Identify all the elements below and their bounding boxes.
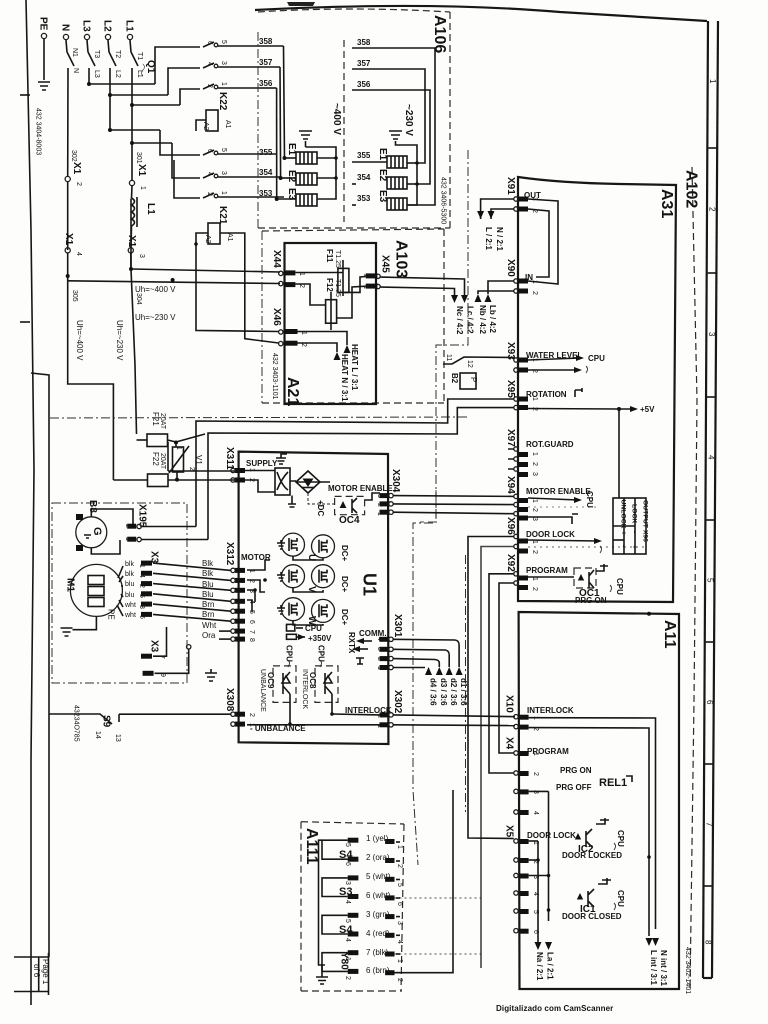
svg-text:X1: X1 <box>71 162 82 175</box>
svg-text:blu: blu <box>125 592 134 599</box>
svg-text:Brn: Brn <box>202 600 214 609</box>
svg-text:2: 2 <box>532 772 539 776</box>
svg-text:OC4: OC4 <box>339 515 360 526</box>
svg-text:5: 5 <box>344 919 351 923</box>
svg-text:20AT: 20AT <box>159 413 166 430</box>
svg-text:432 3402-1401: 432 3402-1401 <box>684 947 691 994</box>
svg-text:20AT: 20AT <box>159 453 166 470</box>
svg-text:2: 2 <box>708 207 717 212</box>
svg-text:1: 1 <box>138 564 145 568</box>
svg-text:1: 1 <box>220 191 227 195</box>
svg-text:X308: X308 <box>224 688 235 712</box>
svg-text:CPU: CPU <box>585 491 594 508</box>
svg-text:3: 3 <box>376 647 383 651</box>
svg-text:HEAT N / 3:1: HEAT N / 3:1 <box>340 354 349 402</box>
svg-text:+350V: +350V <box>308 634 332 643</box>
svg-text:301: 301 <box>135 152 142 164</box>
svg-text:L1: L1 <box>124 20 135 32</box>
svg-text:2: 2 <box>531 508 538 512</box>
svg-text:2: 2 <box>396 864 403 868</box>
svg-text:1: 1 <box>124 537 131 541</box>
svg-text:12: 12 <box>466 360 473 368</box>
svg-text:X4: X4 <box>504 737 515 750</box>
svg-text:INTERLOCK: INTERLOCK <box>301 669 308 709</box>
svg-text:1: 1 <box>376 512 383 516</box>
svg-text:2: 2 <box>376 503 383 507</box>
svg-text:357: 357 <box>259 58 273 67</box>
svg-text:354: 354 <box>259 168 273 177</box>
svg-text:X96: X96 <box>505 517 516 535</box>
svg-text:4: 4 <box>396 940 403 944</box>
svg-text:Y80: Y80 <box>339 952 350 970</box>
svg-text:4: 4 <box>344 900 351 904</box>
svg-text:Uh=~400 V: Uh=~400 V <box>75 320 84 361</box>
svg-text:1: 1 <box>220 82 227 86</box>
svg-text:Nc / 4:2: Nc / 4:2 <box>455 306 464 335</box>
svg-text:5: 5 <box>138 594 145 598</box>
svg-text:OUTPUT X96: OUTPUT X96 <box>642 500 649 542</box>
svg-text:d1 / 3:6: d1 / 3:6 <box>459 678 468 706</box>
svg-text:Digitalizado com CamScanner: Digitalizado com CamScanner <box>496 1004 613 1013</box>
svg-text:5: 5 <box>344 843 351 847</box>
svg-text:8: 8 <box>704 940 713 945</box>
svg-text:304: 304 <box>135 293 142 305</box>
svg-text:Blu: Blu <box>202 580 214 589</box>
svg-text:L3: L3 <box>81 20 92 32</box>
svg-text:L2: L2 <box>114 70 121 78</box>
svg-text:6 (wht): 6 (wht) <box>366 891 391 900</box>
svg-text:X97: X97 <box>505 429 516 447</box>
svg-text:d2 / 3:6: d2 / 3:6 <box>449 678 458 706</box>
svg-text:5: 5 <box>248 610 255 614</box>
svg-text:T2: T2 <box>114 50 121 58</box>
svg-text:3 (grn): 3 (grn) <box>366 910 390 919</box>
svg-text:MOTOR ENABLE: MOTOR ENABLE <box>328 484 393 493</box>
svg-text:~400 V: ~400 V <box>331 103 342 135</box>
svg-text:358: 358 <box>259 37 273 46</box>
svg-text:L1: L1 <box>145 203 156 215</box>
svg-text:6 (brn): 6 (brn) <box>366 966 390 975</box>
svg-text:5: 5 <box>220 40 227 44</box>
svg-text:L1: L1 <box>136 70 143 78</box>
svg-text:SUPPLY: SUPPLY <box>246 459 278 468</box>
svg-text:4: 4 <box>75 252 82 256</box>
svg-text:X311: X311 <box>224 447 235 470</box>
svg-text:2: 2 <box>396 978 403 982</box>
svg-text:432 3404-8003: 432 3404-8003 <box>35 108 42 155</box>
svg-text:CPU: CPU <box>317 645 326 662</box>
svg-text:B2: B2 <box>450 373 459 384</box>
svg-text:1: 1 <box>531 499 538 503</box>
svg-text:2 (ora): 2 (ora) <box>366 853 390 862</box>
svg-text:2: 2 <box>376 657 383 661</box>
svg-text:CPU: CPU <box>615 578 624 595</box>
svg-text:X91: X91 <box>505 177 516 195</box>
svg-text:CPU: CPU <box>588 354 605 363</box>
svg-text:N: N <box>60 24 71 31</box>
svg-text:UNLOCK: UNLOCK <box>620 500 627 529</box>
svg-text:T3: T3 <box>93 50 100 58</box>
svg-text:OC9: OC9 <box>266 672 275 689</box>
svg-text:PRG OFF: PRG OFF <box>556 783 592 792</box>
svg-text:Na / 2:1: Na / 2:1 <box>535 952 544 981</box>
svg-text:F21: F21 <box>151 412 160 426</box>
svg-text:2: 2 <box>531 462 538 466</box>
svg-text:K21: K21 <box>217 206 228 225</box>
svg-text:Wht: Wht <box>202 621 217 630</box>
svg-text:MOTOR ENABLE: MOTOR ENABLE <box>526 487 591 496</box>
svg-text:T1: T1 <box>136 52 143 60</box>
svg-text:A1: A1 <box>224 120 231 129</box>
svg-text:F22: F22 <box>151 452 160 466</box>
svg-text:+5V: +5V <box>640 405 655 414</box>
svg-text:X302: X302 <box>392 690 403 714</box>
svg-text:1: 1 <box>532 752 539 756</box>
svg-text:4: 4 <box>376 637 383 641</box>
svg-text:~230 V: ~230 V <box>403 104 414 136</box>
svg-text:Blu: Blu <box>202 590 214 599</box>
svg-text:3: 3 <box>707 332 716 337</box>
svg-text:358: 358 <box>357 38 371 47</box>
svg-text:7 (blk): 7 (blk) <box>366 948 389 957</box>
svg-text:L int / 3:1: L int / 3:1 <box>649 950 658 986</box>
svg-text:Ora: Ora <box>202 631 216 640</box>
svg-text:G: G <box>91 527 103 536</box>
svg-text:3: 3 <box>344 881 351 885</box>
svg-text:M1: M1 <box>65 578 76 592</box>
svg-text:1 (yel): 1 (yel) <box>366 834 389 843</box>
svg-text:355: 355 <box>357 151 371 160</box>
svg-text:A2: A2 <box>204 235 211 244</box>
svg-text:d4 / 3:6: d4 / 3:6 <box>429 678 438 706</box>
svg-text:of 6: of 6 <box>32 964 41 978</box>
svg-text:2: 2 <box>124 524 131 528</box>
svg-text:6: 6 <box>138 615 145 619</box>
svg-text:X90: X90 <box>505 259 516 277</box>
svg-text:353: 353 <box>259 189 273 198</box>
svg-text:PE: PE <box>107 609 116 620</box>
svg-text:INTERLOCK: INTERLOCK <box>527 706 574 715</box>
svg-text:X1: X1 <box>63 233 74 246</box>
svg-text:X1: X1 <box>136 164 147 177</box>
svg-text:B8: B8 <box>87 500 98 513</box>
svg-text:HEAT L / 3:1: HEAT L / 3:1 <box>350 344 359 391</box>
svg-text:1: 1 <box>708 79 717 84</box>
svg-text:305: 305 <box>71 290 78 302</box>
svg-text:N int / 3:1: N int / 3:1 <box>659 950 668 987</box>
svg-text:blk: blk <box>125 561 134 568</box>
svg-text:Brn: Brn <box>202 610 214 619</box>
svg-text:DC+: DC+ <box>340 576 349 593</box>
svg-text:A111: A111 <box>303 828 320 865</box>
svg-text:P: P <box>469 377 478 382</box>
svg-text:7: 7 <box>704 822 713 827</box>
svg-text:356: 356 <box>259 79 273 88</box>
svg-text:CPU: CPU <box>285 645 294 662</box>
svg-text:Nb / 4:2: Nb / 4:2 <box>478 305 487 334</box>
svg-text:A31: A31 <box>658 189 675 218</box>
svg-text:A11: A11 <box>661 620 678 649</box>
svg-text:X304: X304 <box>390 469 401 493</box>
svg-text:1: 1 <box>531 397 538 401</box>
svg-text:2: 2 <box>188 467 195 471</box>
svg-text:wht: wht <box>124 602 136 609</box>
svg-text:X45: X45 <box>380 255 391 273</box>
svg-text:2: 2 <box>531 587 538 591</box>
svg-text:43234O785: 43234O785 <box>73 705 80 742</box>
svg-text:N: N <box>72 68 79 73</box>
svg-text:1: 1 <box>248 569 255 573</box>
svg-text:X46: X46 <box>271 308 282 326</box>
svg-text:blu: blu <box>125 581 134 588</box>
svg-text:4: 4 <box>706 455 715 460</box>
svg-text:6: 6 <box>396 902 403 906</box>
svg-text:CPU: CPU <box>305 624 322 633</box>
svg-text:11: 11 <box>445 354 452 361</box>
svg-text:L / 2:1: L / 2:1 <box>484 227 493 251</box>
svg-text:DOOR CLOSED: DOOR CLOSED <box>562 912 622 921</box>
svg-text:N / 2:1: N / 2:1 <box>495 227 504 252</box>
svg-text:A21: A21 <box>284 377 301 406</box>
svg-text:DOOR LOCKED: DOOR LOCKED <box>562 851 622 860</box>
svg-text:S3: S3 <box>339 886 352 898</box>
svg-text:A2: A2 <box>202 122 209 131</box>
svg-text:1: 1 <box>531 452 538 456</box>
svg-text:3: 3 <box>376 494 383 498</box>
svg-text:UNBALANCE: UNBALANCE <box>259 669 266 712</box>
svg-text:2: 2 <box>344 976 351 980</box>
svg-text:L2: L2 <box>102 20 113 32</box>
svg-text:6: 6 <box>705 700 714 705</box>
svg-text:2: 2 <box>248 713 255 717</box>
svg-text:X10: X10 <box>504 695 515 713</box>
svg-text:1: 1 <box>396 959 403 963</box>
svg-text:X44: X44 <box>271 250 282 268</box>
svg-text:S4: S4 <box>339 849 353 861</box>
svg-text:La / 2:1: La / 2:1 <box>546 952 555 980</box>
svg-text:2: 2 <box>138 584 145 588</box>
svg-text:OC8: OC8 <box>308 672 317 689</box>
svg-text:2: 2 <box>75 182 82 186</box>
svg-text:X312: X312 <box>224 542 235 566</box>
svg-text:DC+: DC+ <box>340 545 349 562</box>
svg-text:X5: X5 <box>504 825 515 838</box>
svg-text:RXTX: RXTX <box>347 632 356 654</box>
svg-text:REL1: REL1 <box>599 777 627 789</box>
svg-text:-: - <box>631 531 638 534</box>
svg-text:4 (red): 4 (red) <box>366 929 390 938</box>
svg-text:PRG ON: PRG ON <box>560 766 592 775</box>
svg-text:blk: blk <box>125 571 134 578</box>
svg-text:T1.25: T1.25 <box>334 250 341 268</box>
svg-text:A1: A1 <box>226 233 233 242</box>
svg-text:F11: F11 <box>325 249 334 263</box>
svg-text:302: 302 <box>70 150 77 162</box>
svg-text:PROGRAM: PROGRAM <box>526 566 568 575</box>
svg-text:wht: wht <box>124 612 136 619</box>
svg-text:13: 13 <box>114 734 121 742</box>
svg-text:X3: X3 <box>149 640 160 653</box>
svg-text:3: 3 <box>220 171 227 175</box>
svg-text:- UNBALANCE: - UNBALANCE <box>250 724 306 733</box>
svg-text:432 3406-5300: 432 3406-5300 <box>440 177 447 224</box>
svg-text:ROT.GUARD: ROT.GUARD <box>526 440 574 449</box>
svg-text:2: 2 <box>531 291 538 295</box>
svg-text:d3 / 3:6: d3 / 3:6 <box>439 678 448 706</box>
svg-text:Uh=~230 V: Uh=~230 V <box>115 320 124 361</box>
svg-text:X92: X92 <box>505 554 516 572</box>
svg-text:A103: A103 <box>393 240 410 278</box>
svg-text:DOOR LOCK: DOOR LOCK <box>527 831 576 840</box>
svg-text:Blk: Blk <box>202 559 214 568</box>
svg-text:Blk: Blk <box>202 569 214 578</box>
svg-text:7: 7 <box>248 630 255 634</box>
svg-text:3: 3 <box>396 921 403 925</box>
svg-text:3: 3 <box>531 472 538 476</box>
svg-text:PRG ON: PRG ON <box>575 596 607 605</box>
svg-text:4: 4 <box>532 811 539 815</box>
svg-text:6: 6 <box>248 620 255 624</box>
svg-text:CPU: CPU <box>616 890 625 907</box>
svg-text:6: 6 <box>344 862 351 866</box>
svg-text:1: 1 <box>139 186 146 190</box>
svg-text:353: 353 <box>357 194 371 203</box>
svg-text:Page 1: Page 1 <box>41 959 50 985</box>
svg-text:5: 5 <box>706 578 715 583</box>
svg-text:Lc / 4:2: Lc / 4:2 <box>466 306 475 334</box>
svg-text:CPU: CPU <box>616 830 625 847</box>
svg-text:X94: X94 <box>505 476 516 494</box>
svg-text:5: 5 <box>396 883 403 887</box>
svg-text:356: 356 <box>357 80 371 89</box>
svg-text:DC+: DC+ <box>340 609 349 626</box>
svg-text:DOOR LOCK: DOOR LOCK <box>526 530 575 539</box>
svg-text:3: 3 <box>220 61 227 65</box>
svg-text:L3: L3 <box>93 70 100 78</box>
svg-text:1: 1 <box>531 280 538 284</box>
svg-text:3: 3 <box>248 589 255 593</box>
svg-text:MOTOR: MOTOR <box>241 553 271 562</box>
svg-text:X95: X95 <box>505 380 516 398</box>
svg-text:355: 355 <box>259 148 273 157</box>
svg-text:4: 4 <box>248 600 255 604</box>
svg-text:354: 354 <box>357 173 371 182</box>
svg-text:432 3403-1101: 432 3403-1101 <box>271 353 278 400</box>
svg-text:2: 2 <box>531 550 538 554</box>
svg-text:5 (wht): 5 (wht) <box>366 872 391 881</box>
svg-text:8: 8 <box>248 638 255 642</box>
svg-text:K22: K22 <box>217 92 228 111</box>
svg-text:Uh=~230 V: Uh=~230 V <box>135 313 176 322</box>
svg-text:3: 3 <box>138 605 145 609</box>
svg-text:14: 14 <box>94 731 101 739</box>
svg-text:5: 5 <box>220 148 227 152</box>
svg-text:F12: F12 <box>325 278 334 292</box>
svg-text:+: + <box>620 531 627 535</box>
svg-text:1: 1 <box>376 666 383 670</box>
svg-text:1: 1 <box>396 845 403 849</box>
svg-text:S4: S4 <box>339 924 353 936</box>
svg-text:T1.25: T1.25 <box>334 279 341 297</box>
svg-text:357: 357 <box>357 59 371 68</box>
svg-text:4: 4 <box>344 938 351 942</box>
svg-text:PE: PE <box>38 17 49 31</box>
svg-text:Lb / 4:2: Lb / 4:2 <box>488 305 497 334</box>
svg-text:X301: X301 <box>392 614 403 638</box>
svg-text:U1: U1 <box>360 573 380 596</box>
svg-text:3: 3 <box>138 254 145 258</box>
svg-text:A102: A102 <box>683 170 700 208</box>
svg-text:N1: N1 <box>71 48 78 57</box>
svg-text:1: 1 <box>175 446 182 450</box>
svg-text:LOCK: LOCK <box>631 504 638 523</box>
svg-text:4: 4 <box>138 574 145 578</box>
svg-text:2: 2 <box>248 579 255 583</box>
svg-text:+DC: +DC <box>316 500 325 516</box>
